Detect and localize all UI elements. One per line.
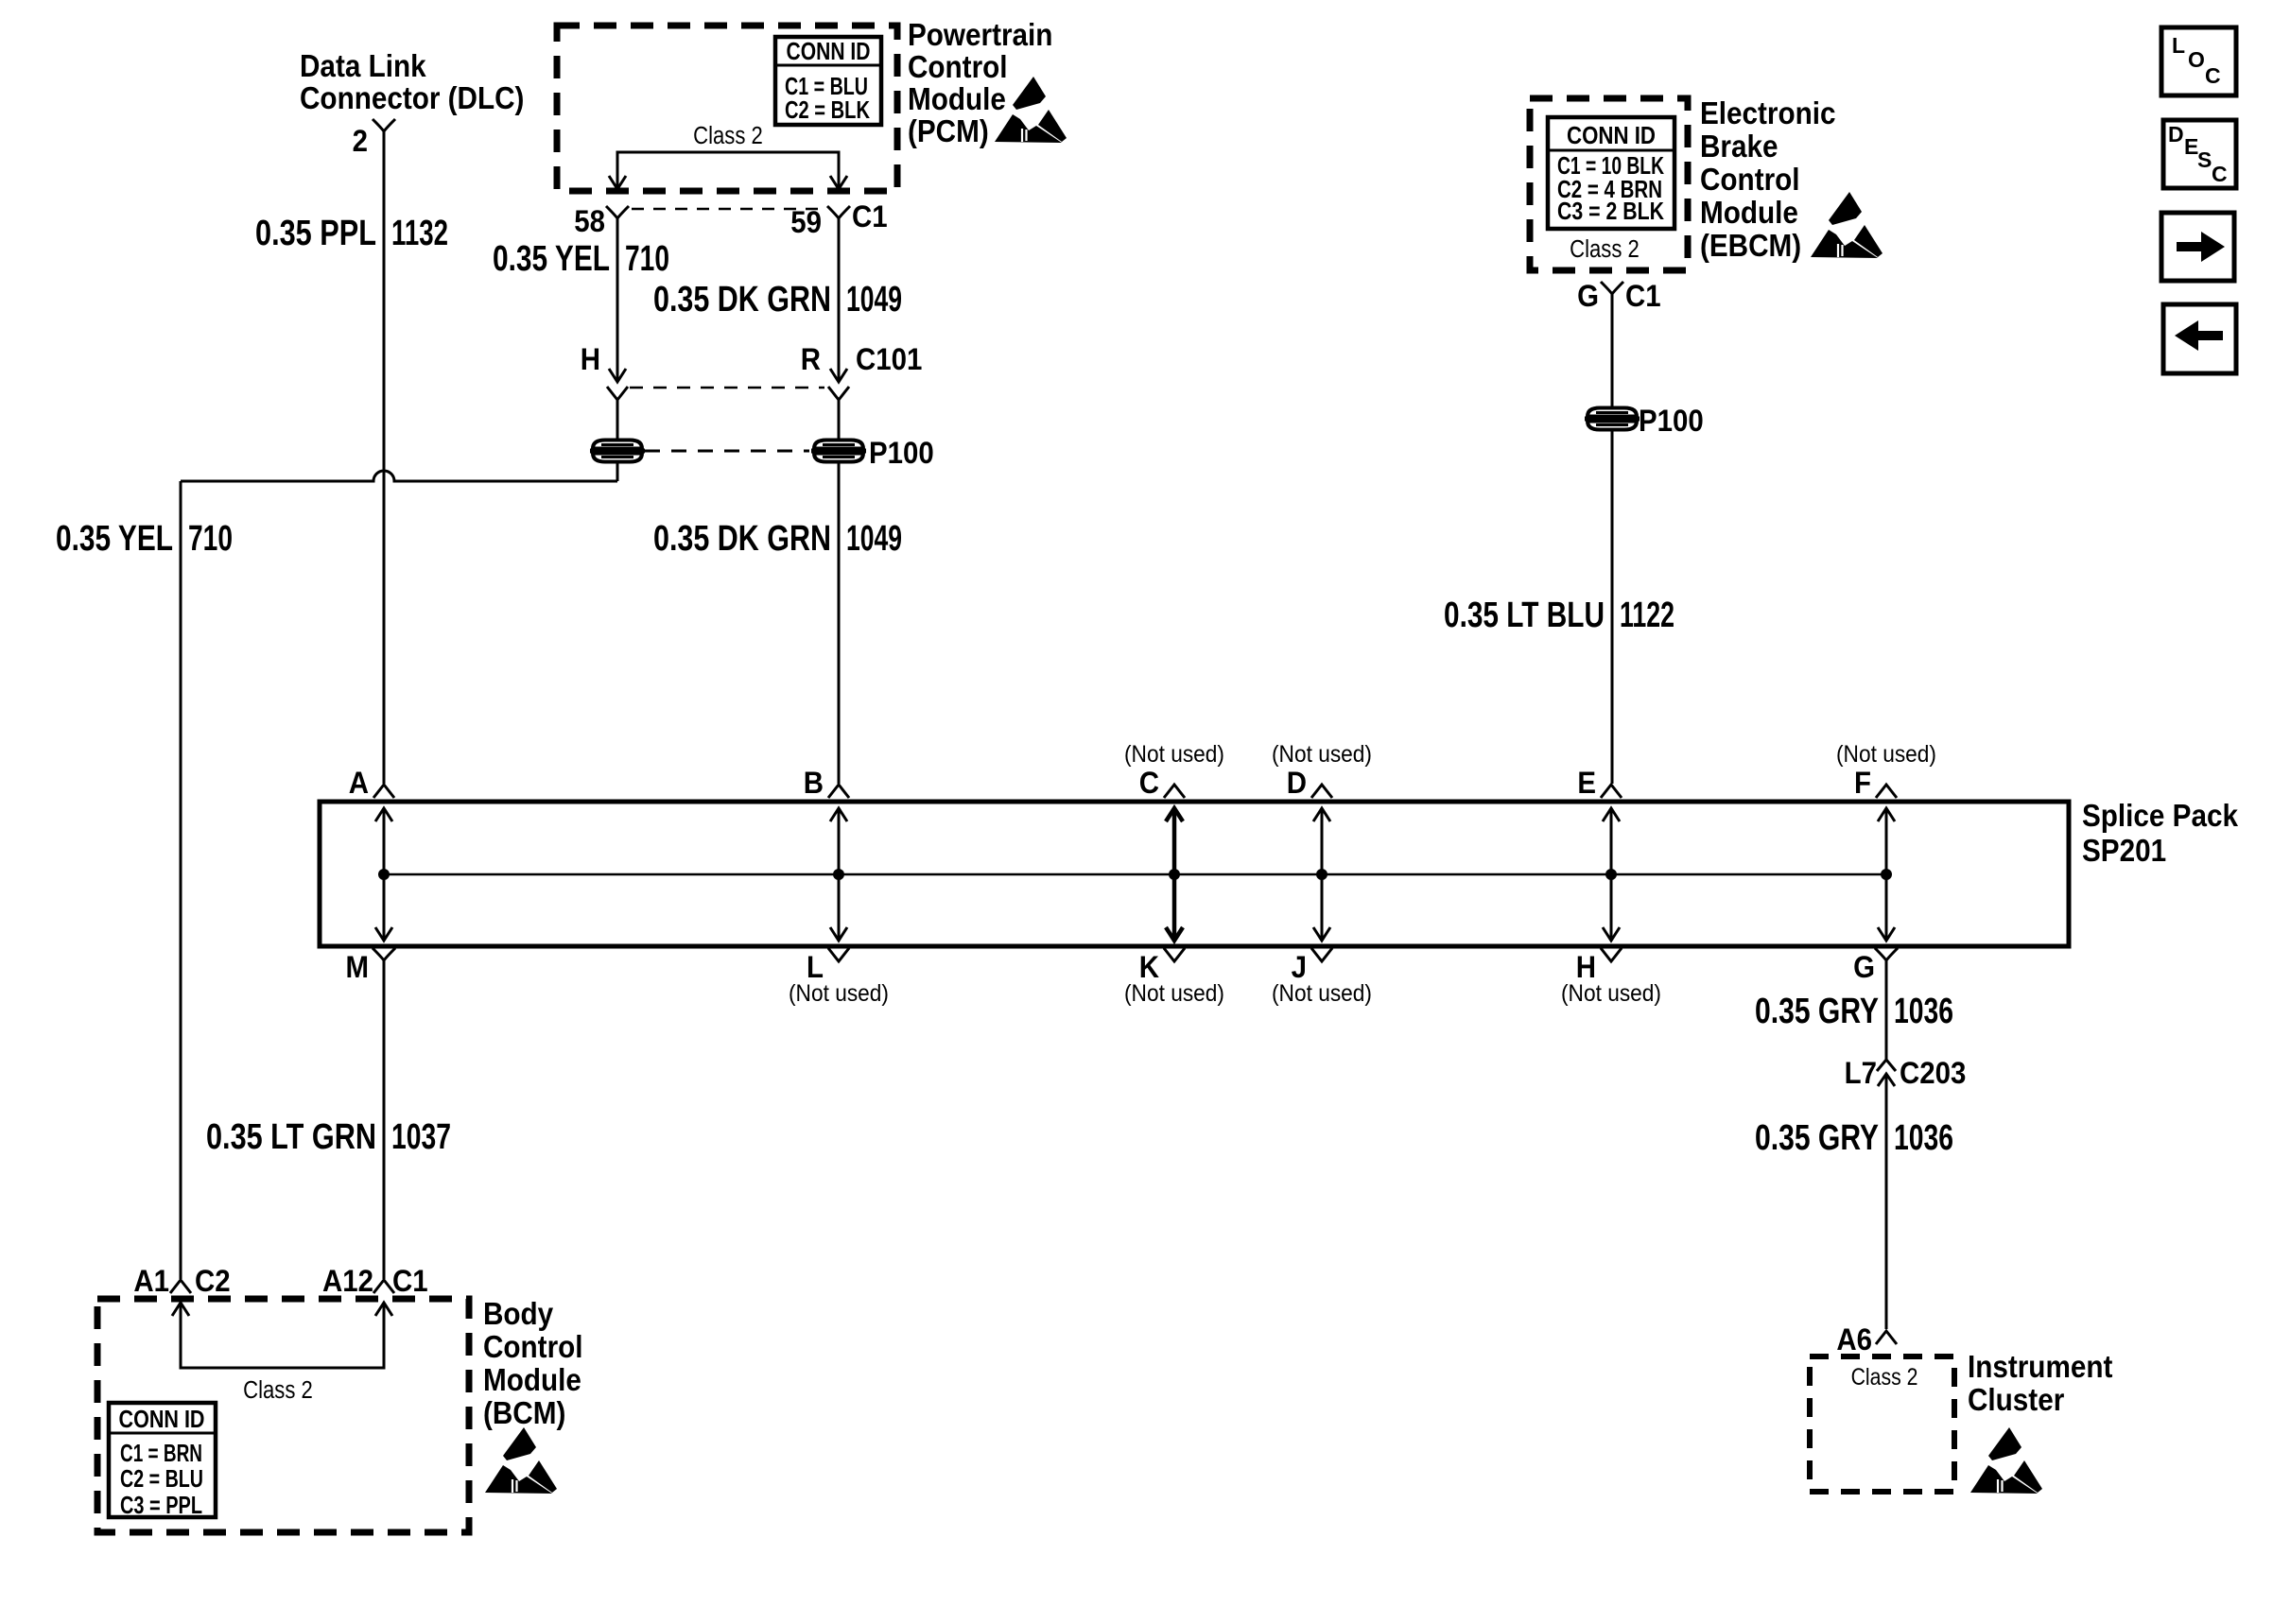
svg-text:Module: Module bbox=[1700, 196, 1798, 231]
svg-text:Module: Module bbox=[908, 82, 1006, 117]
splice junction dot pin B bbox=[833, 869, 844, 880]
connector chevron at BCM A1 bbox=[170, 1280, 191, 1293]
svg-text:(BCM): (BCM) bbox=[483, 1396, 565, 1431]
splice pack SP201 box bbox=[320, 802, 2069, 946]
svg-text:(EBCM): (EBCM) bbox=[1700, 229, 1801, 264]
svg-text:0.35 GRY: 0.35 GRY bbox=[1755, 1118, 1879, 1158]
connector Y at EBCM pin G bbox=[1601, 282, 1623, 301]
svg-text:C3 = PPL: C3 = PPL bbox=[120, 1491, 202, 1519]
svg-text:R: R bbox=[801, 342, 821, 376]
svg-text:D: D bbox=[1287, 766, 1307, 800]
connector chevron above splice pin A bbox=[373, 785, 394, 798]
svg-text:D: D bbox=[2168, 122, 2184, 147]
wire YEL 710 left branch down to BCM A1 bbox=[180, 481, 182, 1279]
svg-text:(PCM): (PCM) bbox=[908, 114, 989, 149]
svg-text:Control: Control bbox=[908, 50, 1008, 85]
connector chevron below splice pin K bbox=[1164, 948, 1185, 961]
svg-text:1037: 1037 bbox=[391, 1117, 451, 1157]
svg-text:Class 2: Class 2 bbox=[1570, 235, 1640, 263]
svg-text:S: S bbox=[2197, 147, 2212, 172]
connector chevron below splice pin H bbox=[1601, 948, 1622, 961]
connector chevron below splice pin J bbox=[1311, 948, 1332, 961]
svg-text:Class 2: Class 2 bbox=[693, 122, 763, 149]
connector Y below splice pin G bbox=[1875, 948, 1898, 974]
module EBCM dashed box bbox=[1530, 98, 1688, 270]
icon left-arrow box bbox=[2163, 304, 2236, 373]
conn-id table BCM bbox=[109, 1403, 216, 1517]
splice junction dot pin C bbox=[1169, 869, 1180, 880]
svg-text:58: 58 bbox=[574, 204, 605, 238]
svg-text:Class 2: Class 2 bbox=[243, 1376, 313, 1404]
arrowhead up inside splice at F bbox=[1878, 808, 1895, 821]
svg-text:SP201: SP201 bbox=[2082, 834, 2166, 869]
wire LT BLU 1122 from P100 to splice pin E bbox=[1611, 430, 1614, 784]
svg-text:2: 2 bbox=[353, 124, 368, 158]
splice internal wire pin A bbox=[383, 808, 386, 941]
svg-text:L: L bbox=[2172, 33, 2185, 58]
svg-text:Module: Module bbox=[483, 1363, 581, 1398]
svg-text:A6: A6 bbox=[1836, 1322, 1872, 1356]
wire from left grommet to junction corner bbox=[616, 461, 619, 481]
svg-text:Brake: Brake bbox=[1700, 130, 1778, 164]
svg-text:L7: L7 bbox=[1845, 1056, 1877, 1090]
svg-text:Body: Body bbox=[483, 1297, 554, 1332]
arrowhead down inside splice below F bbox=[1878, 927, 1895, 941]
icon LOC box bbox=[2161, 27, 2236, 95]
svg-text:710: 710 bbox=[625, 239, 669, 279]
arrowhead down at PCM pin 58 bbox=[609, 176, 626, 189]
svg-text:A1: A1 bbox=[133, 1264, 169, 1298]
svg-text:C1: C1 bbox=[1625, 279, 1661, 313]
grommet P100 right bbox=[811, 441, 866, 462]
wire DK GRN 1049 below C101 R bbox=[838, 400, 841, 441]
svg-text:E: E bbox=[1577, 766, 1596, 800]
connector Y at DLC pin 2 bbox=[373, 119, 395, 139]
ESD symbol EBCM bbox=[1811, 192, 1883, 258]
arrowhead down at C101 pin R bbox=[830, 369, 847, 382]
splice junction dot pin A bbox=[378, 869, 390, 880]
svg-text:(Not used): (Not used) bbox=[789, 980, 889, 1007]
svg-text:0.35 YEL: 0.35 YEL bbox=[493, 239, 610, 279]
icon right-arrow bbox=[2177, 232, 2225, 262]
arrowhead down inside splice below E bbox=[1603, 927, 1620, 941]
svg-text:59: 59 bbox=[790, 205, 822, 239]
svg-text:Cluster: Cluster bbox=[1968, 1383, 2064, 1418]
svg-text:G: G bbox=[1577, 279, 1599, 313]
icon left-arrow bbox=[2175, 320, 2223, 351]
svg-text:Electronic: Electronic bbox=[1700, 96, 1836, 131]
connector chevron below C101 pin R bbox=[828, 387, 849, 400]
connector chevron above splice pin B bbox=[828, 785, 849, 798]
svg-text:(Not used): (Not used) bbox=[1836, 741, 1936, 768]
module BCM dashed box bbox=[97, 1299, 469, 1532]
arrowhead up inside splice at D bbox=[1313, 808, 1330, 821]
svg-text:C1: C1 bbox=[852, 199, 888, 233]
arrowhead up inside splice at A bbox=[375, 808, 392, 821]
conn-id table PCM bbox=[775, 37, 881, 125]
wire Class 2 jumper inside PCM bbox=[617, 152, 839, 189]
arrowhead up inside splice at C bbox=[1166, 808, 1183, 821]
svg-text:C2 = BLU: C2 = BLU bbox=[120, 1464, 203, 1493]
svg-text:1036: 1036 bbox=[1894, 1118, 1953, 1158]
svg-text:Splice Pack: Splice Pack bbox=[2082, 799, 2239, 834]
connector chevron at C203 upper bbox=[1877, 1060, 1896, 1071]
svg-text:710: 710 bbox=[188, 519, 233, 559]
svg-text:1132: 1132 bbox=[391, 214, 448, 253]
svg-text:CONN ID: CONN ID bbox=[1567, 121, 1656, 149]
svg-text:Powertrain: Powertrain bbox=[908, 18, 1052, 53]
ESD symbol PCM bbox=[995, 77, 1067, 143]
svg-text:1122: 1122 bbox=[1620, 596, 1674, 635]
wire LT GRN 1037 from splice M to BCM A12 bbox=[383, 974, 386, 1279]
wire GRY 1036 from splice G to C203 bbox=[1885, 974, 1888, 1060]
svg-text:C: C bbox=[1139, 766, 1159, 800]
svg-text:CONN ID: CONN ID bbox=[787, 37, 871, 65]
wire LT BLU 1122 from EBCM to P100 bbox=[1611, 300, 1614, 441]
conn-id table EBCM bbox=[1548, 117, 1674, 229]
connector chevron at cluster A6 bbox=[1876, 1331, 1897, 1344]
wire YEL 710 below C101 H bbox=[616, 400, 619, 441]
svg-text:Instrument: Instrument bbox=[1968, 1350, 2113, 1385]
connector chevron at BCM A12 bbox=[373, 1280, 394, 1293]
svg-text:C1 = BRN: C1 = BRN bbox=[120, 1439, 202, 1467]
svg-text:G: G bbox=[1853, 950, 1875, 984]
icon right-arrow box bbox=[2161, 213, 2234, 281]
svg-text:C101: C101 bbox=[856, 342, 922, 376]
svg-text:(Not used): (Not used) bbox=[1124, 980, 1224, 1007]
svg-text:0.35 GRY: 0.35 GRY bbox=[1755, 992, 1879, 1031]
svg-text:C203: C203 bbox=[1900, 1056, 1966, 1090]
wire DK GRN 1049 from PCM pin 59 bbox=[838, 225, 841, 382]
arrowhead down inside splice below A bbox=[375, 927, 392, 941]
svg-text:(Not used): (Not used) bbox=[1561, 980, 1661, 1007]
arrowhead down inside splice below D bbox=[1313, 927, 1330, 941]
svg-text:C1: C1 bbox=[392, 1264, 428, 1298]
svg-text:O: O bbox=[2188, 47, 2205, 72]
svg-text:H: H bbox=[581, 342, 600, 376]
arrowhead up at C203 lower bbox=[1878, 1074, 1895, 1086]
svg-text:0.35 DK GRN: 0.35 DK GRN bbox=[653, 519, 831, 559]
svg-text:Control: Control bbox=[1700, 163, 1800, 198]
svg-text:J: J bbox=[1292, 950, 1307, 984]
svg-text:L: L bbox=[807, 950, 824, 984]
wire horizontal from corner to left grommet leg with hop over PPL wire bbox=[181, 471, 617, 481]
connector Y at PCM pin 58 bbox=[606, 206, 629, 225]
connector chevron above splice pin C bbox=[1164, 785, 1185, 798]
arrowhead up at BCM A12 bbox=[375, 1303, 392, 1316]
grommet P100 left bbox=[590, 441, 645, 462]
svg-text:C3 = 2 BLK: C3 = 2 BLK bbox=[1557, 197, 1664, 225]
arrowhead down at PCM pin 59 bbox=[830, 176, 847, 189]
svg-text:(Not used): (Not used) bbox=[1272, 980, 1372, 1007]
svg-text:C: C bbox=[2212, 162, 2228, 186]
svg-text:A: A bbox=[349, 766, 369, 800]
wire YEL 710 from PCM pin 58 bbox=[616, 225, 619, 382]
arrowhead up at BCM A1 bbox=[172, 1303, 189, 1316]
svg-text:1036: 1036 bbox=[1894, 992, 1953, 1031]
svg-text:A12: A12 bbox=[322, 1264, 373, 1298]
svg-text:1049: 1049 bbox=[846, 280, 902, 320]
wire GRY 1036 from C203 to cluster A6 bbox=[1885, 1074, 1888, 1329]
connector chevron below C101 pin H bbox=[607, 387, 628, 400]
svg-text:Class 2: Class 2 bbox=[1851, 1363, 1918, 1390]
module PCM dashed box bbox=[557, 26, 897, 191]
splice junction dot pin E bbox=[1605, 869, 1617, 880]
svg-text:Connector (DLC): Connector (DLC) bbox=[300, 81, 524, 116]
wire PPL 1132 from DLC pin 2 down to splice pin A bbox=[383, 139, 386, 784]
connector chevron below splice pin L bbox=[828, 948, 849, 961]
svg-text:M: M bbox=[345, 950, 369, 984]
grommet P100 EBCM bbox=[1585, 408, 1640, 430]
arrowhead up inside splice at B bbox=[830, 808, 847, 821]
svg-text:Control: Control bbox=[483, 1330, 583, 1365]
arrowhead down at C101 pin H bbox=[609, 369, 626, 382]
svg-text:K: K bbox=[1139, 950, 1159, 984]
connector chevron above splice pin F bbox=[1876, 785, 1897, 798]
connector C101 dashed line bbox=[630, 387, 824, 389]
connector Y below splice pin M bbox=[373, 948, 395, 974]
svg-text:0.35 YEL: 0.35 YEL bbox=[56, 519, 173, 559]
wire Class 2 jumper inside BCM bbox=[181, 1303, 384, 1368]
ESD symbol cluster bbox=[1970, 1427, 2042, 1494]
svg-text:C2: C2 bbox=[195, 1264, 231, 1298]
svg-text:1049: 1049 bbox=[846, 519, 902, 559]
module Instrument Cluster dashed box bbox=[1810, 1356, 1954, 1492]
svg-text:0.35 PPL: 0.35 PPL bbox=[255, 214, 376, 253]
splice internal wire pin E bbox=[1610, 808, 1613, 941]
dashed link between P100 grommets bbox=[645, 450, 809, 453]
splice junction dot pin D bbox=[1316, 869, 1327, 880]
svg-text:Data Link: Data Link bbox=[300, 49, 426, 84]
splice internal wire pin D bbox=[1321, 808, 1324, 941]
arrowhead down inside splice below C bbox=[1166, 927, 1183, 941]
connector chevron above splice pin D bbox=[1311, 785, 1332, 798]
splice junction dot pin F bbox=[1881, 869, 1892, 880]
svg-text:(Not used): (Not used) bbox=[1272, 741, 1372, 768]
svg-text:C: C bbox=[2205, 63, 2221, 88]
svg-text:0.35 LT GRN: 0.35 LT GRN bbox=[206, 1117, 376, 1157]
svg-text:P100: P100 bbox=[1639, 404, 1704, 438]
splice internal wire pin B bbox=[838, 808, 841, 941]
arrowhead down inside splice below B bbox=[830, 927, 847, 941]
splice bus line bbox=[384, 873, 1886, 876]
connector chevron above splice pin E bbox=[1601, 785, 1622, 798]
ESD symbol BCM bbox=[485, 1427, 557, 1494]
svg-text:0.35 LT BLU: 0.35 LT BLU bbox=[1444, 596, 1605, 635]
svg-text:C2 = BLK: C2 = BLK bbox=[785, 95, 870, 124]
arrowhead up inside splice at E bbox=[1603, 808, 1620, 821]
svg-text:P100: P100 bbox=[869, 436, 934, 470]
svg-text:CONN ID: CONN ID bbox=[119, 1405, 205, 1433]
splice internal wire pin C bbox=[1172, 808, 1177, 941]
svg-text:(Not used): (Not used) bbox=[1124, 741, 1224, 768]
icon DESC box bbox=[2163, 120, 2236, 188]
connector Y at PCM pin 59 bbox=[827, 206, 850, 225]
connector C1 dashed line under PCM bbox=[632, 208, 824, 211]
svg-text:H: H bbox=[1576, 950, 1596, 984]
svg-text:F: F bbox=[1854, 766, 1871, 800]
wire from right grommet down to splice pin B bbox=[838, 461, 841, 784]
svg-text:B: B bbox=[804, 766, 824, 800]
svg-text:0.35 DK GRN: 0.35 DK GRN bbox=[653, 280, 831, 320]
splice internal wire pin F bbox=[1885, 808, 1888, 941]
